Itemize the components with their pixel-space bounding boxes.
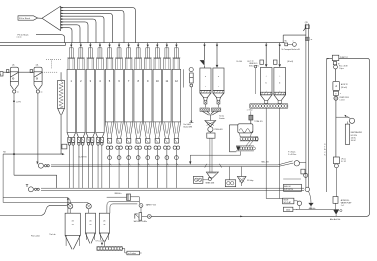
recirculation line [0, 197, 69, 215]
lime bin A [200, 68, 211, 107]
svg-text:F L 1/2: F L 1/2 [341, 161, 346, 163]
column 4 inlet nozzle [96, 47, 104, 69]
column 8 drop pipe with valve [136, 149, 140, 188]
level instrument string bin A [184, 68, 194, 129]
column 9 drop pipe with valve [146, 149, 150, 188]
column 8 inlet nozzle [134, 47, 142, 69]
column 3 twin drop pipes [88, 145, 92, 188]
vessel F1 outlet valve [13, 90, 19, 94]
column 2 body [77, 69, 85, 132]
feeder discharge box [207, 132, 215, 138]
column 3 twin hoppers [86, 133, 94, 146]
svg-text:(30 m3): (30 m3) [341, 87, 347, 89]
battery side tap line [183, 69, 185, 87]
silo feed line 1 [3, 154, 70, 203]
acid line to bottom [335, 100, 337, 157]
column 3 inlet nozzle [86, 47, 94, 69]
wire duct to manifold end [283, 35, 306, 43]
column 7 inlet nozzle [125, 47, 133, 69]
SC2 discharge line to header H1 [189, 151, 240, 164]
silo level probe [255, 66, 257, 95]
svg-text:1.0 m3: 1.0 m3 [340, 99, 345, 101]
ash silo S2 [85, 213, 95, 243]
column 6 drop pipe with valve [117, 149, 121, 188]
screw conveyor SC2 [236, 146, 255, 151]
svg-text:xx: xx [17, 91, 19, 93]
acid dosing box [333, 91, 341, 95]
battery side marks [62, 80, 63, 88]
svg-text:F x ID Fan: F x ID Fan [288, 154, 296, 156]
stack riser [324, 58, 329, 192]
weigh bin [115, 193, 140, 204]
svg-text:1.0pcs: 1.0pcs [339, 68, 344, 70]
silo pair labels [249, 48, 300, 68]
duct top damper box [303, 22, 309, 31]
svg-text:N/S (L x S/T): N/S (L x S/T) [249, 65, 259, 67]
svg-text:SPAN 40/M: SPAN 40/M [206, 182, 215, 185]
blower B1 [36, 162, 49, 168]
svg-text:PUMP XXXX: PUMP XXXX [340, 97, 350, 99]
column 9 hopper and rotary valve [144, 122, 152, 149]
ID fan [278, 161, 306, 167]
conveying header H2 pipe [41, 188, 304, 190]
column 4 twin hoppers [96, 133, 104, 146]
svg-text:FG to Stack: FG to Stack [18, 34, 30, 37]
acid line down [335, 69, 337, 82]
svg-text:A: A [335, 84, 337, 88]
fan-out header lines with arrows [61, 7, 63, 9]
bin outlet merge chute [203, 111, 219, 120]
column 12 drop pipe with valve [175, 149, 179, 188]
svg-text:The Lab: The Lab [49, 234, 55, 236]
drain dot on F1 pipe [13, 100, 21, 103]
column 11 inlet nozzle [163, 47, 171, 69]
neutralizer labels [351, 131, 363, 142]
vacuum pump valve [142, 215, 152, 219]
ash screw conveyor [96, 240, 123, 251]
acid pump box [332, 55, 348, 60]
wire vessel F1 to F2 [18, 71, 34, 73]
svg-text:xx Crusher: xx Crusher [128, 252, 137, 255]
column 8 hopper and rotary valve [134, 122, 142, 149]
ID fan labels [288, 151, 296, 157]
dust filter vessel F2 [34, 64, 42, 89]
header H2 end label box [284, 184, 302, 191]
column 1 twin hoppers [67, 133, 75, 146]
ash silo S1 [65, 213, 80, 249]
column 3 body [86, 69, 94, 132]
svg-text:x4L: x4L [36, 64, 39, 66]
manifold drop arrows to absorber columns [70, 43, 72, 48]
vessel F2 instrument box [30, 70, 32, 73]
slaker top label [247, 109, 253, 116]
svg-text:DL-140: DL-140 [237, 61, 243, 63]
column 12 body [172, 69, 180, 122]
wire HXD1 to funnel valve [203, 179, 208, 181]
svg-text:xx PS: xx PS [16, 101, 21, 103]
svg-text:SAFETY VLV: SAFETY VLV [146, 204, 157, 207]
svg-text:After Ash Silo: After Ash Silo [330, 218, 340, 221]
svg-text:Mx: Mx [285, 41, 287, 43]
column 7 drop pipe with valve [127, 149, 131, 188]
svg-text:B.P 1/4 T/H: B.P 1/4 T/H [284, 189, 293, 191]
blower B2 [26, 185, 40, 192]
svg-text:WEIGH x: WEIGH x [115, 193, 122, 195]
gas cooler vessel with coil [58, 80, 65, 114]
dashed signal line [42, 71, 58, 73]
silo D instrument box [273, 60, 277, 64]
vacuum line arrow [240, 216, 243, 218]
lab label [31, 234, 56, 238]
column 6 inlet nozzle [115, 47, 123, 69]
cooler drop pipe [60, 115, 62, 154]
silo D discharge pipe [279, 108, 281, 198]
svg-text:xx: xx [103, 224, 105, 226]
slaker vent pipe [229, 125, 237, 152]
after fill water pump [333, 197, 351, 210]
drop labels [237, 61, 252, 63]
manifold header line [0, 42, 285, 44]
acid valve 2 [334, 96, 350, 101]
svg-text:1 x 2: 1 x 2 [341, 205, 345, 207]
column 8 body [134, 69, 142, 122]
svg-text:xx: xx [311, 39, 313, 41]
counter box 2400 [283, 207, 293, 211]
after pump discharge valve [330, 209, 342, 221]
column 11 body [163, 69, 171, 122]
level string lower arrow [189, 121, 193, 123]
column 6 body [115, 69, 123, 122]
F1 pipe elbow to conveyor header [14, 175, 57, 188]
bin B rotary feeder [211, 108, 220, 111]
bottom collector line [296, 208, 333, 210]
lime silo C [260, 68, 272, 104]
safety valve [139, 204, 157, 213]
duct inline valve [304, 173, 308, 177]
acid loop top line [326, 57, 332, 59]
column 4 body [96, 69, 104, 132]
loop right line [151, 58, 369, 216]
crusher valve [237, 167, 253, 187]
column 5 body [105, 69, 113, 122]
feed drop to bin B [216, 43, 219, 68]
column 11 drop pipe with valve [165, 149, 169, 188]
column 2 twin drop pipes [79, 145, 83, 188]
feed drop to silo D [278, 43, 281, 68]
duct outlet valve [305, 187, 309, 191]
water filter valve [334, 164, 338, 197]
column 6 hopper and rotary valve [115, 122, 123, 149]
svg-text:XX t/day: XX t/day [247, 179, 254, 182]
column 10 drop pipe with valve [155, 149, 159, 188]
silo S3 discharge stub [103, 241, 105, 246]
svg-text:F x Stack: F x Stack [288, 151, 295, 154]
svg-text:MILL 2B: MILL 2B [262, 162, 270, 164]
header H2 stub line [283, 178, 301, 180]
ash conditioner label box [127, 251, 142, 255]
dust filter vessel F1 [10, 64, 18, 89]
svg-text:Xx Transport Bucket x/B: Xx Transport Bucket x/B [282, 48, 301, 51]
bin A rotary feeder [200, 108, 209, 111]
vessel F2 outlet valve [36, 90, 42, 94]
wire feedline to weigh bin [107, 196, 127, 198]
left edge tag box [0, 72, 3, 76]
column 5 hopper and rotary valve [105, 122, 113, 149]
lime silo D [274, 68, 286, 104]
mode box [283, 198, 294, 204]
duct outlet elbow [309, 191, 312, 203]
header H1 junction slashes [205, 164, 222, 168]
column 9 body [144, 69, 152, 122]
feeder box HXD1 [193, 176, 203, 183]
column 2 inlet nozzle [77, 47, 85, 69]
chute SC1 to SC2 [246, 141, 253, 146]
lime slaker [238, 124, 253, 133]
manifold end instruments [285, 41, 297, 47]
acid valve 1 [334, 65, 348, 70]
svg-text:FG to Stack: FG to Stack [19, 17, 31, 20]
svg-text:x xx xx: x xx xx [17, 37, 22, 39]
svg-text:CW: CW [305, 22, 308, 24]
column 12 hopper and rotary valve [172, 122, 180, 149]
diverter funnel [206, 172, 219, 184]
ash silo S1 vent filter [68, 204, 73, 214]
column 10 inlet nozzle [153, 47, 161, 69]
wire label L2 to manifold [36, 35, 65, 43]
svg-text:HCL x 30 M: HCL x 30 M [339, 66, 348, 68]
wire tag to vessel F1 [3, 71, 10, 73]
svg-text:Feeder: Feeder [219, 117, 225, 120]
svg-text:(30 m3): (30 m3) [287, 61, 293, 63]
mixer cone [205, 115, 225, 127]
svg-text:HCl 31%: HCl 31% [351, 135, 358, 137]
svg-text:LP xxx: LP xxx [341, 159, 346, 161]
column 2 twin hoppers [77, 133, 85, 146]
svg-text:2400: 2400 [286, 210, 290, 212]
silo S3 feed arcs [107, 201, 139, 213]
column 11 hopper and rotary valve [163, 122, 171, 149]
mixer drop pipe to header [210, 138, 212, 172]
conveying header H1 pipe [51, 165, 278, 167]
transfer valve circle [293, 201, 302, 210]
svg-text:xx: xx [72, 224, 74, 226]
column 9 inlet nozzle [144, 47, 152, 69]
duct damper box [301, 169, 305, 174]
ash discharge valve [308, 203, 315, 210]
lime collecting conveyor [250, 104, 288, 108]
lime bin B [213, 68, 224, 107]
dashed signal line 2 [46, 58, 62, 60]
slaker discharge funnel [239, 133, 251, 137]
screw conveyor SC1 [240, 137, 258, 141]
duct expansion joint 1 [305, 37, 312, 41]
feed drop to silo C [265, 43, 268, 68]
svg-text:MODE: MODE [284, 200, 289, 202]
column 7 hopper and rotary valve [124, 122, 132, 149]
column 10 body [153, 69, 161, 122]
column 10 hopper and rotary valve [153, 122, 161, 149]
acid tank A [333, 81, 349, 90]
dashed signal drop [50, 59, 52, 68]
cooler inlet stub [60, 72, 62, 80]
column 1 body [67, 69, 75, 132]
junction dot [13, 153, 15, 155]
manifold header line 2 [0, 37, 66, 46]
silo C instrument box [260, 60, 264, 64]
water filter box [333, 157, 346, 164]
svg-text:ASH GO: ASH GO [284, 185, 291, 188]
wire flag to distributor [38, 17, 43, 19]
column 1 twin drop pipes [69, 145, 73, 188]
flag label L1 'FG to Stack' [18, 16, 38, 20]
transfer line with arrow [3, 152, 65, 156]
svg-text:Bucket M/S: Bucket M/S [184, 126, 194, 129]
svg-text:x4L: x4L [12, 64, 15, 66]
column 5 drop pipe with valve [108, 149, 112, 188]
rotary feeder PMG [208, 127, 223, 132]
svg-text:S % conveyor: S % conveyor [96, 240, 107, 243]
ash silo S2 vent filter [86, 204, 91, 214]
silo C discharge pipe [266, 108, 283, 198]
column 12 inlet nozzle [173, 47, 181, 69]
svg-text:Fine Lasher: Fine Lasher [31, 234, 40, 237]
neutralizer tank [336, 117, 350, 144]
svg-text:TOTAL 8.7t: TOTAL 8.7t [254, 120, 263, 123]
svg-text:ACID TK: ACID TK [341, 83, 349, 86]
distributor triangle [42, 6, 61, 30]
vessel F1 drop pipe [13, 93, 15, 175]
feeder box HXD2 [225, 167, 235, 187]
ash silo S3 [99, 213, 109, 241]
svg-text:xx: xx [90, 224, 92, 226]
flue gas duct [306, 24, 309, 188]
column 4 twin drop pipes [98, 145, 102, 188]
neutralizer pump [345, 115, 355, 124]
svg-text:xx: xx [41, 91, 43, 93]
column 1 inlet nozzle [67, 47, 75, 69]
conveyor discharge pipe [122, 249, 127, 253]
svg-text:Su STR B: Su STR B [79, 157, 88, 159]
vacuum blower [134, 213, 148, 224]
svg-text:x / Star: x / Star [247, 109, 253, 112]
column 7 body [124, 69, 132, 122]
slaker feed gate box [249, 115, 263, 124]
acid pump motor [333, 62, 340, 66]
feed drop to bin A with arrow [200, 43, 206, 68]
hopper row end box [62, 144, 67, 149]
column 5 inlet nozzle [106, 47, 114, 69]
svg-text:PMG-401: PMG-401 [215, 129, 223, 131]
silo feed line 2 [3, 202, 89, 203]
vessel F1 instrument box [6, 70, 8, 73]
vessel F2 drop pipe [37, 93, 39, 163]
